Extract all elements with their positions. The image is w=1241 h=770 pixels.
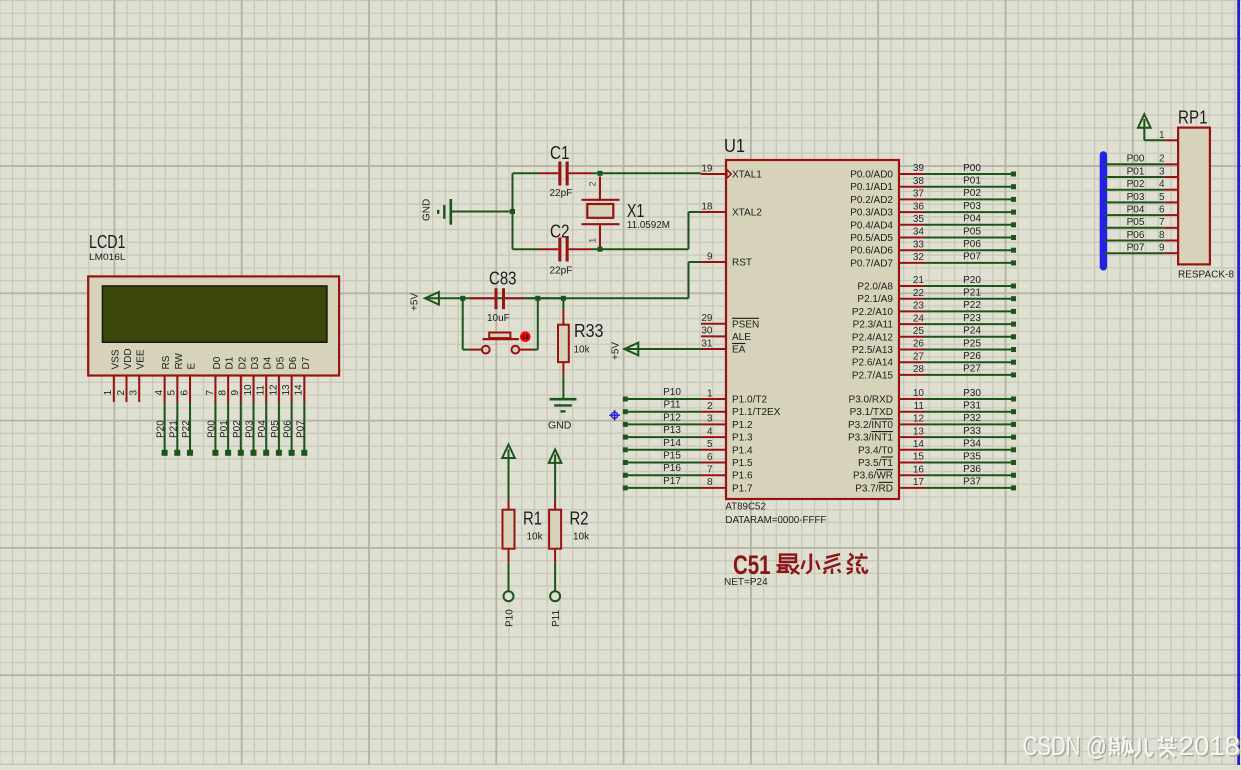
svg-text:P02: P02: [232, 420, 243, 438]
svg-text:8: 8: [707, 477, 713, 488]
svg-text:PSEN: PSEN: [732, 319, 759, 330]
svg-text:P2.4/A12: P2.4/A12: [852, 332, 894, 343]
svg-text:19: 19: [701, 163, 713, 174]
title text C51 minimum system: [724, 550, 868, 588]
U1 pin 4 P1.3 with wire to net P13: [623, 425, 753, 444]
LCD1 pin 11 (D4) with wire to net P04: [256, 356, 274, 456]
svg-text:P07: P07: [963, 252, 981, 263]
LCD1 pin 5 (RW) with wire to net P21: [167, 352, 185, 455]
U1 pin 36 P0.3/AD3 with wire to net P03: [850, 201, 1016, 219]
svg-text:D2: D2: [237, 356, 248, 369]
svg-text:P1.1/T2EX: P1.1/T2EX: [732, 407, 781, 418]
svg-text:D7: D7: [301, 356, 312, 369]
svg-text:D0: D0: [212, 356, 223, 369]
LCD LCD1 LM016L body: [88, 232, 339, 376]
svg-text:15: 15: [913, 452, 925, 463]
resistor R1 10k: [503, 450, 544, 563]
svg-text:RST: RST: [732, 258, 752, 269]
U1 pin 13 P3.3/INT1 with wire to net P33: [848, 426, 1016, 444]
svg-text:P05: P05: [1127, 217, 1145, 228]
junction node (GND / C1 / C2 branch): [510, 173, 515, 249]
svg-text:RS: RS: [161, 355, 172, 369]
svg-text:XTAL1: XTAL1: [732, 170, 762, 181]
svg-text:RESPACK-8: RESPACK-8: [1178, 270, 1234, 281]
U1 pin 31 EA: [701, 338, 746, 355]
svg-text:P0.7/AD7: P0.7/AD7: [850, 258, 893, 269]
svg-text:18: 18: [701, 201, 713, 212]
svg-text:P01: P01: [1127, 166, 1145, 177]
svg-text:P2.1/A9: P2.1/A9: [857, 294, 893, 305]
svg-text:2: 2: [116, 390, 127, 396]
svg-text:10k: 10k: [527, 532, 544, 543]
LCD1 pin 13 (D6) with wire to net P06: [281, 356, 299, 456]
svg-text:P14: P14: [663, 438, 681, 449]
svg-text:P11: P11: [551, 610, 562, 627]
svg-text:5: 5: [707, 439, 713, 450]
svg-text:X1: X1: [627, 201, 645, 221]
svg-text:10: 10: [243, 384, 254, 396]
svg-text:P06: P06: [283, 420, 294, 438]
svg-text:38: 38: [913, 176, 925, 187]
svg-text:P03: P03: [963, 201, 981, 212]
svg-text:3: 3: [707, 414, 713, 425]
svg-text:P3.1/TXD: P3.1/TXD: [850, 407, 893, 418]
svg-text:14: 14: [913, 439, 925, 450]
svg-text:P0.0/AD0: P0.0/AD0: [850, 170, 893, 181]
sheet border (blue) right edge: [1237, 0, 1240, 765]
svg-text:28: 28: [913, 364, 925, 375]
svg-text:P0.4/AD4: P0.4/AD4: [850, 220, 893, 231]
svg-text:D1: D1: [225, 356, 236, 369]
svg-text:P33: P33: [963, 426, 981, 437]
svg-text:P05: P05: [270, 420, 281, 438]
svg-text:P0.2/AD2: P0.2/AD2: [850, 195, 893, 206]
svg-text:P1.7: P1.7: [732, 483, 753, 494]
U1 pin 9 RST: [701, 251, 752, 268]
svg-text:12: 12: [913, 414, 925, 425]
svg-text:6: 6: [1159, 205, 1165, 216]
svg-text:P10: P10: [663, 387, 681, 398]
svg-text:22pF: 22pF: [550, 188, 573, 199]
svg-text:3: 3: [129, 390, 140, 396]
svg-text:P03: P03: [1127, 192, 1145, 203]
svg-text:P04: P04: [257, 420, 268, 438]
svg-text:26: 26: [913, 339, 925, 350]
svg-text:P26: P26: [963, 351, 981, 362]
svg-text:P0.6/AD6: P0.6/AD6: [850, 246, 893, 257]
ground symbol GND (below R33): [548, 399, 577, 431]
svg-text:10: 10: [913, 388, 925, 399]
svg-text:VDD: VDD: [123, 348, 134, 369]
svg-text:P35: P35: [963, 451, 981, 462]
svg-text:P04: P04: [1127, 205, 1145, 216]
svg-text:36: 36: [913, 201, 925, 212]
svg-text:D4: D4: [263, 356, 274, 369]
wire +5V to EA: [624, 348, 701, 350]
U1 pin 16 P3.6/WR with wire to net P36: [853, 464, 1016, 482]
svg-text:P10: P10: [505, 609, 516, 627]
U1 pin 1 P1.0/T2 with wire to net P10: [623, 387, 768, 406]
wire to C2: [513, 248, 540, 250]
svg-text:P03: P03: [245, 420, 256, 438]
svg-text:P00: P00: [206, 420, 217, 438]
resistor R33 10k: [558, 310, 604, 375]
svg-text:P2.3/A11: P2.3/A11: [853, 320, 894, 331]
RP1 pin 1 with wire to power: [1144, 119, 1178, 141]
svg-text:C83: C83: [489, 269, 517, 289]
U1 pin 3 P1.2 with wire to net P12: [623, 412, 753, 431]
svg-text:C51: C51: [733, 550, 771, 580]
U1 pin 38 P0.1/AD1 with wire to net P01: [850, 176, 1016, 194]
wire C2 / crystal pin 1 to XTAL2: [592, 212, 702, 252]
svg-text:R1: R1: [523, 509, 542, 529]
svg-text:P3.0/RXD: P3.0/RXD: [849, 395, 893, 406]
resistor pack RP1 RESPACK-8 body: [1178, 108, 1234, 281]
svg-text:P00: P00: [963, 163, 981, 174]
svg-text:4: 4: [1159, 179, 1165, 190]
svg-text:9: 9: [1159, 243, 1165, 254]
LCD1 pin 12 (D5) with wire to net P05: [268, 356, 286, 456]
svg-text:21: 21: [913, 275, 925, 286]
U1 pin 6 P1.5 with wire to net P15: [623, 451, 753, 470]
svg-text:6: 6: [707, 452, 713, 463]
LCD1 pin 2 (VDD): [116, 348, 134, 402]
U1 pin 33 P0.6/AD6 with wire to net P06: [850, 239, 1016, 257]
svg-text:P06: P06: [1127, 230, 1145, 241]
junction node (button right riser): [524, 296, 563, 301]
svg-text:P02: P02: [963, 188, 981, 199]
push button (reset): [470, 331, 533, 353]
U1 pin 22 P2.1/A9 with wire to net P21: [857, 288, 1016, 306]
U1 pin 23 P2.2/A10 with wire to net P22: [852, 300, 1016, 318]
wire R2 to terminal P11: [550, 562, 562, 627]
wire button to +5V rail: [533, 298, 538, 349]
svg-text:ALE: ALE: [732, 332, 751, 343]
svg-text:D3: D3: [250, 356, 261, 369]
svg-text:10uF: 10uF: [487, 313, 510, 324]
svg-text:P2.5/A13: P2.5/A13: [852, 345, 894, 356]
svg-text:D5: D5: [275, 356, 286, 369]
power arrow for RP1 pin 1: [1138, 114, 1151, 128]
LCD1 pin 1 (VSS): [103, 349, 121, 402]
power terminal +5V (EA pin): [611, 342, 639, 360]
svg-text:5: 5: [1159, 192, 1165, 203]
U1 pin 28 P2.7/A15 with wire to net P27: [852, 364, 1016, 382]
LCD1 pin 14 (D7) with wire to net P07: [294, 356, 312, 456]
svg-text:P07: P07: [1127, 243, 1145, 254]
U1 pin 34 P0.5/AD5 with wire to net P05: [850, 226, 1016, 244]
U1 pin 30 ALE: [701, 326, 751, 343]
svg-text:P3.4/T0: P3.4/T0: [858, 445, 893, 456]
svg-text:2: 2: [588, 181, 598, 186]
svg-text:34: 34: [913, 227, 925, 238]
U1 pin 19 XTAL1: [701, 163, 762, 180]
svg-text:P21: P21: [963, 288, 981, 299]
junction node button branch: [460, 296, 470, 350]
U1 pin 35 P0.4/AD4 with wire to net P04: [850, 214, 1016, 232]
LCD1 pin 3 (VEE): [129, 349, 147, 402]
svg-text:P20: P20: [963, 275, 981, 286]
svg-text:P36: P36: [963, 464, 981, 475]
svg-text:RW: RW: [174, 352, 185, 369]
U1 pin 37 P0.2/AD2 with wire to net P02: [850, 188, 1016, 206]
svg-text:P25: P25: [963, 338, 981, 349]
svg-text:+5V: +5V: [409, 293, 420, 311]
svg-text:D6: D6: [288, 356, 299, 369]
watermark CSDN: [1023, 731, 1241, 763]
svg-text:24: 24: [913, 313, 925, 324]
svg-text:P11: P11: [663, 400, 680, 411]
RP1 pin 5 with wire to net P03: [1104, 192, 1178, 203]
U1 pin 8 P1.7 with wire to net P17: [623, 476, 753, 495]
svg-text:8: 8: [1159, 230, 1165, 241]
svg-text:P1.3: P1.3: [732, 433, 753, 444]
microcontroller U1 AT89C52 body: [724, 136, 899, 526]
svg-text:13: 13: [281, 384, 292, 396]
svg-text:NET=P24: NET=P24: [724, 577, 768, 588]
svg-text:P0.3/AD3: P0.3/AD3: [850, 208, 893, 219]
wire +5V rail to RST riser: [425, 262, 701, 298]
svg-text:11: 11: [914, 401, 925, 412]
svg-text:P01: P01: [219, 420, 230, 438]
bus wire (blue) to RP1: [1100, 155, 1107, 267]
wire R1 to terminal P10: [504, 562, 516, 627]
svg-text:39: 39: [913, 163, 925, 174]
svg-text:P0.1/AD1: P0.1/AD1: [850, 182, 893, 193]
svg-text:E: E: [187, 363, 198, 370]
power arrow for R1: [502, 445, 515, 459]
svg-text:XTAL2: XTAL2: [732, 208, 762, 219]
svg-text:RP1: RP1: [1178, 108, 1208, 128]
svg-text:P1.2: P1.2: [732, 420, 753, 431]
U1 pin 32 P0.7/AD7 with wire to net P07: [850, 252, 1016, 270]
U1 pin 7 P1.6 with wire to net P16: [623, 463, 753, 482]
svg-text:P20: P20: [156, 420, 167, 438]
U1 pin 27 P2.6/A14 with wire to net P26: [852, 351, 1016, 369]
svg-text:11.0592M: 11.0592M: [627, 220, 670, 231]
svg-text:29: 29: [701, 313, 713, 324]
svg-text:P2.6/A14: P2.6/A14: [852, 358, 894, 369]
RP1 pin 9 with wire to net P07: [1104, 243, 1178, 254]
U1 pin 18 XTAL2: [701, 201, 762, 218]
RP1 pin 7 with wire to net P05: [1104, 217, 1178, 228]
svg-text:9: 9: [230, 390, 241, 396]
svg-text:P02: P02: [1127, 179, 1145, 190]
svg-text:P00: P00: [1127, 154, 1145, 165]
crystal X1 11.0592M: [582, 177, 670, 248]
U1 pin 15 P3.5/T1 with wire to net P35: [858, 451, 1016, 469]
U1 pin 26 P2.5/A13 with wire to net P25: [852, 338, 1016, 356]
RP1 pin 6 with wire to net P04: [1104, 205, 1178, 216]
resistor R2 10k: [549, 454, 590, 562]
svg-text:3: 3: [1159, 166, 1165, 177]
svg-text:P07: P07: [295, 420, 306, 438]
svg-text:7: 7: [707, 465, 713, 476]
LCD1 pin 6 (E) with wire to net P22: [179, 363, 197, 456]
svg-text:P16: P16: [663, 463, 681, 474]
svg-text:R33: R33: [574, 321, 604, 341]
U1 pin 24 P2.3/A11 with wire to net P23: [853, 313, 1016, 331]
svg-text:P21: P21: [168, 420, 179, 438]
svg-text:2: 2: [1159, 154, 1165, 165]
svg-text:25: 25: [913, 326, 925, 337]
U1 pin 11 P3.1/TXD with wire to net P31: [850, 401, 1016, 419]
svg-text:P1.4: P1.4: [732, 445, 753, 456]
svg-text:1: 1: [588, 238, 598, 243]
wire GND to node at x=512.5: [452, 211, 513, 213]
svg-text:VEE: VEE: [136, 349, 147, 369]
svg-text:10k: 10k: [573, 532, 590, 543]
svg-text:9: 9: [707, 251, 713, 262]
svg-text:4: 4: [154, 390, 165, 396]
RP1 pin 4 with wire to net P02: [1104, 179, 1178, 190]
svg-text:33: 33: [913, 239, 925, 250]
U1 pin 29 PSEN: [701, 313, 759, 330]
svg-text:17: 17: [913, 477, 925, 488]
svg-text:7: 7: [205, 390, 216, 396]
svg-text:U1: U1: [724, 136, 745, 156]
svg-text:6: 6: [179, 390, 190, 396]
svg-text:22pF: 22pF: [550, 266, 573, 277]
svg-text:CSDN @: CSDN @: [1023, 731, 1107, 761]
svg-text:P1.5: P1.5: [732, 458, 753, 469]
svg-text:4: 4: [707, 426, 713, 437]
svg-text:P05: P05: [963, 226, 981, 237]
svg-text:16: 16: [913, 464, 925, 475]
svg-text:P30: P30: [963, 388, 981, 399]
svg-text:VSS: VSS: [110, 349, 121, 369]
power terminal +5V (reset circuit): [409, 292, 439, 311]
svg-text:13: 13: [913, 426, 925, 437]
svg-text:P1.0/T2: P1.0/T2: [732, 395, 767, 406]
LCD1 pin 4 (RS) with wire to net P20: [154, 355, 172, 456]
svg-text:P13: P13: [663, 425, 681, 436]
svg-text:32: 32: [913, 252, 925, 263]
svg-text:31: 31: [701, 338, 713, 349]
capacitor C1 22pF: [539, 143, 592, 199]
svg-text:P2.2/A10: P2.2/A10: [852, 307, 894, 318]
svg-text:P32: P32: [963, 413, 981, 424]
svg-text:37: 37: [913, 189, 925, 200]
svg-text:P27: P27: [963, 364, 981, 375]
svg-text:P31: P31: [963, 401, 981, 412]
svg-text:P3.2/INT0: P3.2/INT0: [848, 420, 893, 431]
svg-text:12: 12: [268, 384, 279, 396]
svg-text:P3.7/RD: P3.7/RD: [855, 483, 893, 494]
capacitor C2 22pF: [539, 222, 592, 277]
svg-text:P1.6: P1.6: [732, 471, 753, 482]
svg-text:14: 14: [294, 384, 305, 396]
svg-text:P22: P22: [181, 420, 192, 438]
svg-text:LM016L: LM016L: [89, 252, 126, 263]
svg-text:P3.5/T1: P3.5/T1: [858, 458, 893, 469]
U1 pin 2 P1.1/T2EX with wire to net P11: [623, 400, 781, 419]
LCD1 pin 9 (D2) with wire to net P02: [230, 356, 248, 456]
svg-text:P24: P24: [963, 326, 981, 337]
svg-text:C1: C1: [550, 143, 570, 163]
capacitor C83 10uF: [470, 269, 524, 325]
U1 pin 5 P1.4 with wire to net P14: [623, 438, 753, 457]
svg-text:P04: P04: [963, 214, 981, 225]
svg-text:P3.3/INT1: P3.3/INT1: [848, 433, 893, 444]
svg-text:7: 7: [1159, 217, 1165, 228]
svg-text:DATARAM=0000-FFFF: DATARAM=0000-FFFF: [725, 514, 826, 526]
origin marker (blue crosshair): [609, 410, 620, 421]
svg-text:P3.6/WR: P3.6/WR: [853, 471, 893, 482]
svg-text:P01: P01: [963, 176, 981, 187]
LCD1 pin 10 (D3) with wire to net P03: [243, 356, 261, 456]
svg-text:27: 27: [913, 351, 925, 362]
svg-text:1: 1: [707, 388, 713, 399]
svg-text:30: 30: [701, 326, 713, 337]
svg-text:EA: EA: [732, 345, 746, 356]
svg-text:11: 11: [256, 385, 267, 396]
power arrow for R2: [549, 449, 562, 463]
U1 pin 25 P2.4/A12 with wire to net P24: [852, 326, 1016, 344]
svg-text:P2.7/A15: P2.7/A15: [852, 370, 894, 381]
svg-text:22: 22: [913, 288, 925, 299]
U1 pin 21 P2.0/A8 with wire to net P20: [857, 275, 1016, 293]
svg-text:LCD1: LCD1: [89, 232, 126, 252]
wire R33 to ground: [562, 375, 564, 398]
svg-text:2: 2: [707, 401, 713, 412]
svg-text:P2.0/A8: P2.0/A8: [857, 282, 893, 293]
svg-text:23: 23: [913, 301, 925, 312]
svg-text:P06: P06: [963, 239, 981, 250]
RP1 pin 3 with wire to net P01: [1104, 166, 1178, 177]
svg-text:P22: P22: [963, 300, 981, 311]
svg-text:35: 35: [913, 214, 925, 225]
U1 pin 17 P3.7/RD with wire to net P37: [855, 477, 1016, 495]
svg-text:10k: 10k: [574, 345, 591, 356]
svg-text:+5V: +5V: [611, 342, 622, 360]
svg-text:P0.5/AD5: P0.5/AD5: [850, 233, 893, 244]
svg-text:P17: P17: [663, 476, 681, 487]
svg-text:P15: P15: [663, 451, 681, 462]
U1 pin 12 P3.2/INT0 with wire to net P32: [848, 413, 1016, 431]
svg-text:P23: P23: [963, 313, 981, 324]
svg-text:P12: P12: [663, 412, 681, 423]
svg-text:P34: P34: [963, 439, 981, 450]
LCD1 pin 7 (D0) with wire to net P00: [205, 356, 223, 456]
RP1 pin 2 with wire to net P00: [1104, 154, 1178, 165]
junction node R33 top: [561, 296, 566, 310]
svg-text:1: 1: [103, 390, 114, 396]
RP1 pin 8 with wire to net P06: [1104, 230, 1178, 241]
U1 pin 10 P3.0/RXD with wire to net P30: [849, 388, 1016, 406]
svg-text:AT89C52: AT89C52: [725, 501, 766, 513]
svg-text:GND: GND: [422, 199, 433, 221]
svg-text:2018: 2018: [1179, 731, 1240, 761]
svg-text:R2: R2: [570, 509, 589, 529]
wire C1 to XTAL1 with junction at crystal pin 2: [592, 171, 702, 176]
svg-text:P37: P37: [963, 477, 981, 488]
wire to C1: [513, 172, 540, 174]
svg-text:GND: GND: [548, 420, 572, 432]
svg-text:5: 5: [167, 390, 178, 396]
U1 pin 14 P3.4/T0 with wire to net P34: [858, 439, 1016, 457]
ground symbol GND (crystal circuit): [422, 199, 451, 225]
svg-text:1: 1: [1159, 130, 1165, 141]
U1 pin 39 P0.0/AD0 with wire to net P00: [850, 163, 1016, 181]
LCD1 pin 8 (D1) with wire to net P01: [218, 356, 236, 456]
svg-text:8: 8: [218, 390, 229, 396]
